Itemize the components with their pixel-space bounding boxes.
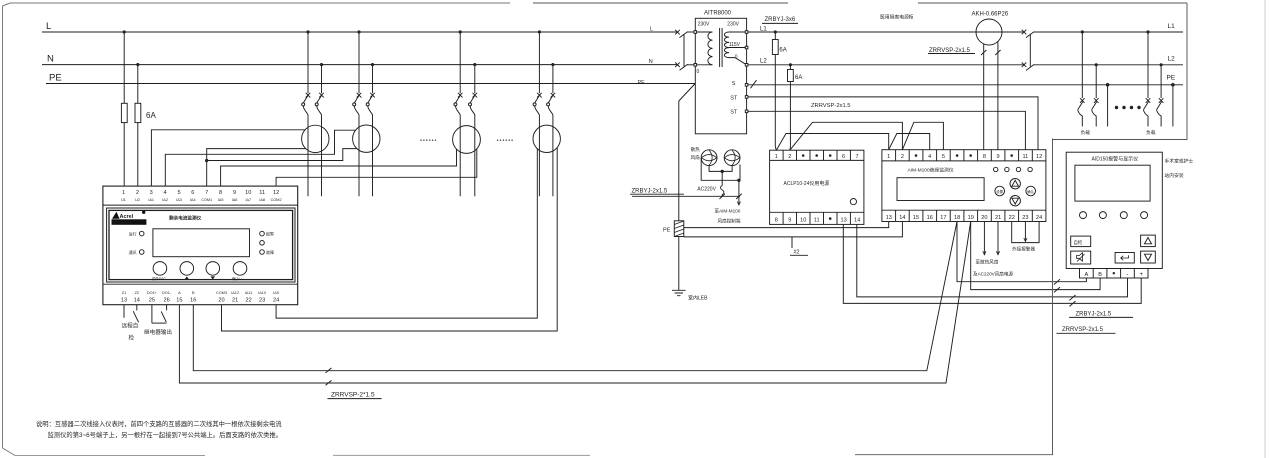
fan AC feed vertical with twist: [721, 171, 723, 196]
svg-text:COM3: COM3: [216, 291, 227, 295]
Acrel logo: [112, 212, 120, 219]
wire L2 drop to ACLP terminal2: [789, 82, 792, 151]
breaker symbol x=539.4: [537, 93, 542, 98]
svg-text:13: 13: [840, 218, 846, 224]
wire ST2 to AIM terminal11: [748, 111, 1026, 149]
wire AIM t19 to AID B: [971, 222, 1100, 290]
AKH secondary wires to AIM t8 t9: [983, 44, 985, 150]
ACLP10-24 power supply box: [770, 150, 864, 224]
sheet border bottom segment 2: [333, 454, 590, 456]
sheet border top right: [918, 2, 1187, 4]
svg-text:#2: #2: [794, 250, 800, 256]
ellipsis dots between CT3 CT4: [497, 140, 498, 141]
svg-text:ARCM300-Z: ARCM300-Z: [113, 221, 132, 225]
svg-text:8: 8: [775, 218, 778, 224]
wire AIM t18 to AID A: [957, 222, 1086, 282]
sheet border top: [10, 2, 510, 4]
wire branch drop x=372.5: [372, 65, 374, 94]
tick on S wire: [751, 80, 757, 88]
svg-text:14: 14: [899, 215, 905, 221]
fuse F3 6A on L1 drop: [774, 31, 776, 33]
svg-text:IΔ12: IΔ12: [231, 291, 239, 295]
svg-text:15: 15: [913, 215, 919, 221]
CT1 current transformer: [302, 125, 329, 152]
wire branch drop x=321.5: [321, 65, 323, 94]
wire L2 from transformer: [748, 64, 1024, 66]
svg-text:设置: 设置: [996, 189, 1003, 194]
AIM LCD: [897, 178, 984, 201]
svg-text:17: 17: [940, 215, 946, 221]
svg-text:确认/↵: 确认/↵: [232, 276, 242, 281]
svg-text:ZRRVSP-2*1.5: ZRRVSP-2*1.5: [331, 392, 375, 399]
transformer terminals: [694, 31, 748, 113]
wire RS485 B from terminal16: [193, 222, 957, 371]
fan control wire down with arrow: [739, 165, 740, 205]
svg-text:IΔ10: IΔ10: [258, 291, 266, 295]
svg-text:S: S: [732, 81, 736, 87]
svg-text:6A: 6A: [795, 75, 802, 81]
junction t7: [206, 159, 208, 161]
svg-text:1: 1: [775, 154, 778, 160]
ticks on AID A B wires: [1054, 279, 1060, 292]
svg-text:远程自: 远程自: [122, 322, 139, 330]
svg-text:PE: PE: [49, 73, 62, 84]
svg-text:23: 23: [259, 298, 265, 304]
svg-text:IΔ6: IΔ6: [232, 198, 238, 202]
LED fault: [260, 250, 265, 255]
svg-text:ACLP10-24仪用电源: ACLP10-24仪用电源: [784, 180, 830, 187]
LED alarm: [260, 231, 265, 236]
svg-text:22: 22: [245, 298, 251, 304]
svg-text:IΔ5: IΔ5: [218, 198, 224, 202]
wire AIM t20 fan supply: [983, 222, 985, 255]
terminal13 wire remote check: [123, 305, 125, 318]
sheet border top right segment: [533, 2, 788, 4]
load breaker 1b: [1094, 98, 1099, 103]
svg-text:22: 22: [1009, 215, 1015, 221]
svg-text:8: 8: [219, 190, 222, 196]
svg-text:ZRBYJ-2x1.5: ZRBYJ-2x1.5: [632, 188, 668, 194]
svg-text:剩余电流监测仪: 剩余电流监测仪: [169, 215, 202, 222]
wire branch drop x=552.9: [552, 65, 554, 94]
svg-text:16: 16: [190, 298, 196, 304]
wire terminal12 COM2 to CT3 lower-right: [276, 149, 477, 186]
svg-text:站内安装: 站内安装: [1165, 172, 1184, 179]
svg-text:ZRRVSP-2x1.5: ZRRVSP-2x1.5: [811, 103, 851, 109]
wire ST1 to AIM terminal12: [748, 97, 1038, 150]
svg-text:+: +: [1139, 272, 1143, 278]
wire F2 to terminal 2: [137, 123, 139, 187]
ticks on fan power wire: [720, 194, 742, 199]
svg-text:Acrel: Acrel: [120, 214, 134, 220]
transformer right coil upper: [724, 32, 729, 48]
svg-text:1: 1: [887, 154, 890, 160]
svg-text:L: L: [46, 21, 51, 32]
svg-text:IΔ8: IΔ8: [259, 198, 265, 202]
AID LEDs: [1080, 212, 1087, 219]
PE riser: [678, 101, 680, 221]
wire L1 drop to ACLP terminal1: [775, 55, 776, 151]
AIM button right: [1026, 186, 1036, 196]
svg-text:IΔ2: IΔ2: [162, 198, 168, 202]
svg-text:21: 21: [995, 215, 1001, 221]
svg-text:说明：互感器二次线接入仪表时，前四个支路的互感器的二次线其中: 说明：互感器二次线接入仪表时，前四个支路的互感器的二次线其中一根依次接剩余电流: [36, 419, 282, 428]
svg-text:14: 14: [134, 298, 140, 304]
AID button mute: [1071, 251, 1091, 264]
wire terminal8 to CT3 lower-left: [221, 149, 457, 186]
svg-text:25: 25: [149, 298, 155, 304]
top terminal labels row: [121, 198, 282, 202]
svg-text:13: 13: [121, 298, 127, 304]
AID button self test: [1071, 236, 1091, 247]
wire PE to AIM terminal14: [684, 222, 903, 237]
transformer box: [695, 18, 746, 134]
svg-text:N: N: [47, 54, 54, 65]
fan 2: [724, 150, 740, 166]
svg-text:4: 4: [928, 154, 931, 160]
svg-text:B: B: [192, 291, 195, 295]
svg-text:6A: 6A: [146, 111, 156, 120]
link wire L2 ACLP t2 to AIM t2 t5: [790, 122, 903, 150]
breaker symbol x=460.2: [458, 93, 463, 98]
svg-text:5: 5: [942, 154, 945, 160]
bus L: [42, 31, 678, 33]
ground riser below block: [678, 237, 680, 291]
load breaker 2b: [1159, 98, 1164, 103]
svg-text:12: 12: [1036, 154, 1042, 160]
wire terminal20 COM3 to CT4 right lead: [222, 148, 558, 331]
svg-text:Z2: Z2: [135, 291, 139, 295]
svg-text:24: 24: [273, 298, 279, 304]
wire branch drop x=539.4: [538, 32, 540, 93]
bus N: [42, 64, 678, 66]
svg-text:手术室或护士: 手术室或护士: [1165, 158, 1194, 165]
L2 two pole switch: [1022, 63, 1027, 68]
breaker symbol x=308: [306, 93, 311, 98]
ticks on AKH secondary: [981, 50, 1001, 55]
svg-text:AC220V: AC220V: [697, 187, 716, 193]
svg-text:21: 21: [232, 298, 238, 304]
svg-text:A: A: [1085, 272, 1089, 278]
svg-text:医用隔离电源柜: 医用隔离电源柜: [880, 13, 914, 20]
svg-text:4: 4: [164, 190, 167, 196]
indicator dot: [142, 211, 145, 214]
svg-text:24: 24: [1036, 215, 1042, 221]
svg-text:10: 10: [245, 190, 251, 196]
svg-text:ZRRVSP-2x1.5: ZRRVSP-2x1.5: [1062, 327, 1104, 333]
svg-text:14: 14: [854, 218, 860, 224]
load branch 2 L2 drop: [1160, 65, 1162, 98]
svg-text:及AC220V风扇电源: 及AC220V风扇电源: [973, 271, 1013, 278]
wire terminal3 to CT1 upper: [151, 130, 305, 186]
breaker symbol x=359: [357, 93, 362, 98]
svg-text:N: N: [649, 59, 653, 65]
wire PE to AIM terminal13: [684, 222, 889, 228]
bus PE: [46, 83, 695, 85]
svg-text:ZRBYJ-2x1.5: ZRBYJ-2x1.5: [1076, 311, 1112, 317]
svg-text:菜单/ESC: 菜单/ESC: [152, 276, 167, 281]
svg-text:U2: U2: [135, 198, 140, 202]
svg-text:6: 6: [191, 190, 194, 196]
AIM button left: [995, 186, 1005, 196]
fan power horizontal wire: [632, 195, 740, 197]
breaker symbol x=321.5: [319, 93, 324, 98]
svg-text:DO1+: DO1+: [147, 291, 158, 295]
load breaker 2a: [1146, 98, 1151, 103]
wire L drop to fuse F1: [123, 32, 125, 103]
svg-text:IΔ1: IΔ1: [148, 198, 154, 202]
svg-text:AKH-0.66P26: AKH-0.66P26: [972, 11, 1009, 17]
wire F1 to terminal 1: [123, 123, 125, 187]
terminal25 26 relay output contact: [151, 305, 153, 323]
svg-text:9: 9: [233, 190, 236, 196]
svg-text:12: 12: [273, 190, 279, 196]
CT4 current transformer: [533, 125, 560, 152]
AID terminal strip: [1080, 269, 1149, 279]
load branch 2 PE drop: [1172, 85, 1174, 127]
wire L2 to enclosure: [1034, 64, 1183, 66]
AID LCD: [1075, 165, 1150, 201]
AID150 display unit box: [1066, 152, 1162, 268]
svg-text:3: 3: [150, 190, 153, 196]
LED mid: [260, 241, 265, 246]
svg-text:AID150报警与显示仪: AID150报警与显示仪: [1092, 156, 1139, 163]
svg-text:6A: 6A: [779, 48, 786, 54]
svg-text:9: 9: [788, 218, 791, 224]
logo model black bar: [112, 219, 147, 225]
device LCD: [153, 229, 250, 257]
enclosure box medical isolation cabinet: [1053, 3, 1188, 140]
wire AIM t23 arrow: [1024, 222, 1026, 242]
svg-text:10: 10: [800, 218, 806, 224]
link wire L1 ACLP t1 to AIM t1 t4: [776, 134, 888, 151]
svg-text:PE: PE: [663, 228, 671, 234]
svg-text:18: 18: [954, 215, 960, 221]
button 1: [153, 262, 167, 276]
svg-text:7: 7: [205, 190, 208, 196]
load branch 2 L1 drop: [1147, 32, 1149, 98]
svg-text:风扇控制端: 风扇控制端: [718, 218, 741, 225]
L1 two pole switch: [1022, 30, 1027, 35]
svg-text:L1: L1: [1168, 23, 1176, 30]
svg-text:监测仪的第3~6号端子上，另一根拧在一起接到7号公共端上。后: 监测仪的第3~6号端子上，另一根拧在一起接到7号公共端上。后面支路的依次类推。: [48, 430, 283, 439]
svg-text:COM1: COM1: [201, 198, 212, 202]
breaker symbol x=474.8: [473, 93, 478, 98]
svg-text:自检: 自检: [1074, 239, 1083, 246]
top terminal numbers row: [122, 190, 279, 196]
switch tie bar right: [1029, 34, 1031, 67]
sheet border bottom segment 1: [15, 455, 205, 457]
svg-text:230V: 230V: [727, 22, 739, 28]
button 2: [180, 262, 194, 276]
svg-text:L2: L2: [1168, 56, 1176, 63]
svg-text:A: A: [178, 291, 181, 295]
breaker symbol x=552.9: [551, 93, 556, 98]
svg-text:20: 20: [981, 215, 987, 221]
wire terminal7 branch to CT2 lower: [207, 149, 357, 161]
svg-text:DO1-: DO1-: [162, 291, 172, 295]
svg-text:负载: 负载: [1146, 129, 1156, 136]
svg-text:至散热风扇: 至散热风扇: [976, 259, 999, 266]
svg-text:115V: 115V: [729, 42, 741, 48]
wire S to right PE bus: [748, 84, 1183, 86]
breaker symbol x=372.5: [370, 93, 375, 98]
svg-text:ST: ST: [730, 110, 738, 116]
wire branch drop x=460.2: [459, 32, 461, 93]
AID button up: [1141, 235, 1156, 247]
svg-text:19: 19: [968, 215, 974, 221]
AKH-0.66P26 current transformer: [976, 19, 1002, 45]
tick and label #2: [791, 237, 793, 248]
bottom terminal labels row: [122, 291, 279, 295]
wire L1 from transformer: [748, 31, 1024, 33]
PE diagonal to ground riser: [679, 84, 695, 102]
svg-text:15: 15: [176, 298, 182, 304]
wire AIM t21 fan supply: [997, 222, 999, 255]
svg-text:IΔ4: IΔ4: [190, 198, 196, 202]
sheet border left: [3, 3, 16, 456]
wire terminal24 to CT4 left lead: [276, 149, 537, 318]
svg-text:2: 2: [136, 190, 139, 196]
svg-text:通讯: 通讯: [129, 249, 137, 255]
fuse F2 6A: [135, 103, 141, 122]
terminal14 wire with switch blade: [136, 305, 138, 311]
svg-text:B: B: [1098, 272, 1102, 278]
svg-text:风扇: 风扇: [691, 154, 701, 161]
svg-text:2: 2: [901, 154, 904, 160]
wire ACLP t14 to AID minus: [857, 224, 1128, 297]
svg-text:PE: PE: [1167, 75, 1176, 82]
svg-text:ST: ST: [730, 96, 738, 102]
load breaker 1a: [1080, 98, 1085, 103]
svg-text:11: 11: [814, 218, 820, 224]
svg-text:AITR8000: AITR8000: [704, 11, 732, 17]
ticks on AID power wires: [1070, 295, 1076, 306]
wire AIM t22 t24 alarm loop: [1012, 222, 1039, 243]
transformer core: [719, 28, 721, 67]
wire N drop to fuse F2: [137, 65, 139, 104]
wire L1 to enclosure: [1034, 31, 1183, 33]
AID button down: [1141, 251, 1156, 263]
svg-text:运行: 运行: [129, 231, 137, 237]
svg-text:IΔ7: IΔ7: [245, 198, 251, 202]
load dots: [1115, 106, 1118, 109]
svg-text:5: 5: [177, 190, 180, 196]
svg-text:IΔ11: IΔ11: [245, 291, 253, 295]
AID button enter: [1115, 253, 1134, 264]
fan outer loop: [701, 158, 739, 181]
button 4: [233, 262, 247, 276]
svg-text:1: 1: [122, 190, 125, 196]
wire branch drop x=359: [358, 32, 360, 93]
load branch 1 L1 drop: [1081, 32, 1083, 98]
transformer left coil: [708, 32, 713, 65]
wire RS485 A from terminal15: [179, 222, 970, 384]
svg-text:26: 26: [163, 298, 169, 304]
svg-text:L: L: [650, 27, 653, 33]
bottom terminal numbers row: [121, 298, 279, 304]
svg-text:AIM-M100绝缘监测仪: AIM-M100绝缘监测仪: [908, 166, 954, 173]
svg-text:散热: 散热: [691, 146, 701, 153]
fan wiring inner: [709, 166, 732, 172]
wire branch drop x=308: [307, 32, 309, 93]
fuse F1 6A: [121, 103, 127, 122]
sheet border right faint: [1264, 0, 1266, 458]
svg-text:7: 7: [856, 154, 859, 160]
svg-text:11: 11: [1022, 154, 1028, 160]
long wire from enclosure down and left: [855, 139, 1053, 455]
wire ACLP t13 to AID plus: [843, 224, 1141, 303]
svg-text:COM2: COM2: [271, 198, 282, 202]
fan 1: [701, 150, 717, 166]
AIM LEDs: [994, 167, 998, 171]
svg-text:检: 检: [129, 334, 135, 342]
svg-text:0: 0: [697, 69, 700, 75]
svg-text:室内LEB: 室内LEB: [688, 295, 708, 302]
svg-text:继电器输出: 继电器输出: [144, 328, 172, 336]
svg-text:PE: PE: [638, 80, 646, 86]
fuse F4 6A on L2 drop: [789, 64, 791, 66]
svg-text:确认: 确认: [1027, 189, 1034, 194]
transformer right coil lower: [724, 48, 729, 58]
wire branch drop x=474.8: [474, 65, 476, 94]
ground symbol: [672, 290, 686, 295]
device face panel: [107, 208, 295, 282]
svg-text:至AIM-M100: 至AIM-M100: [715, 208, 741, 213]
load branch 1 PE drop: [1107, 85, 1109, 127]
svg-text:IΔ9: IΔ9: [273, 291, 279, 295]
svg-text:2: 2: [788, 154, 791, 160]
svg-text:6: 6: [842, 154, 845, 160]
ellipsis dots between CT2 CT3: [420, 140, 421, 141]
svg-text:故障: 故障: [266, 249, 274, 255]
svg-text:16: 16: [927, 215, 933, 221]
svg-text:L2: L2: [760, 59, 767, 65]
residual current monitor device box: [103, 186, 298, 305]
svg-text:0: 0: [735, 55, 738, 61]
load branch 1 L2 drop: [1095, 65, 1097, 98]
svg-text:L1: L1: [760, 27, 767, 33]
AIM-M100 insulation monitor box: [882, 150, 1046, 222]
svg-text:ZRBYJ-3x6: ZRBYJ-3x6: [765, 17, 796, 23]
svg-text:20: 20: [218, 298, 224, 304]
svg-text:13: 13: [886, 215, 892, 221]
AIM button up: [1010, 179, 1020, 189]
CT2 current transformer: [353, 125, 380, 152]
svg-text:230V: 230V: [698, 22, 710, 28]
svg-text:外接报警器: 外接报警器: [1012, 246, 1035, 253]
AIM button down: [1010, 196, 1020, 206]
svg-text:8: 8: [983, 154, 986, 160]
CT3 current transformer: [453, 126, 481, 154]
PE terminal block hatched: [674, 221, 684, 237]
svg-text:负载: 负载: [1081, 129, 1091, 136]
cable tick marks on A B pair: [326, 368, 332, 386]
svg-text:-: -: [1127, 272, 1129, 278]
wire terminal4 to CT2 upper: [165, 130, 355, 186]
ACLP indicator circle: [850, 199, 856, 205]
svg-text:报警: 报警: [266, 231, 274, 237]
svg-text:23: 23: [1022, 215, 1028, 221]
svg-text:11: 11: [259, 190, 265, 196]
switch tie bar: [683, 34, 685, 67]
button 3: [206, 262, 220, 276]
wire terminal7 COM1 to CT1 lower: [207, 149, 306, 187]
svg-text:Z1: Z1: [122, 291, 126, 295]
svg-text:U1: U1: [121, 198, 126, 202]
svg-text:9: 9: [997, 154, 1000, 160]
svg-text:IΔ3: IΔ3: [176, 198, 182, 202]
